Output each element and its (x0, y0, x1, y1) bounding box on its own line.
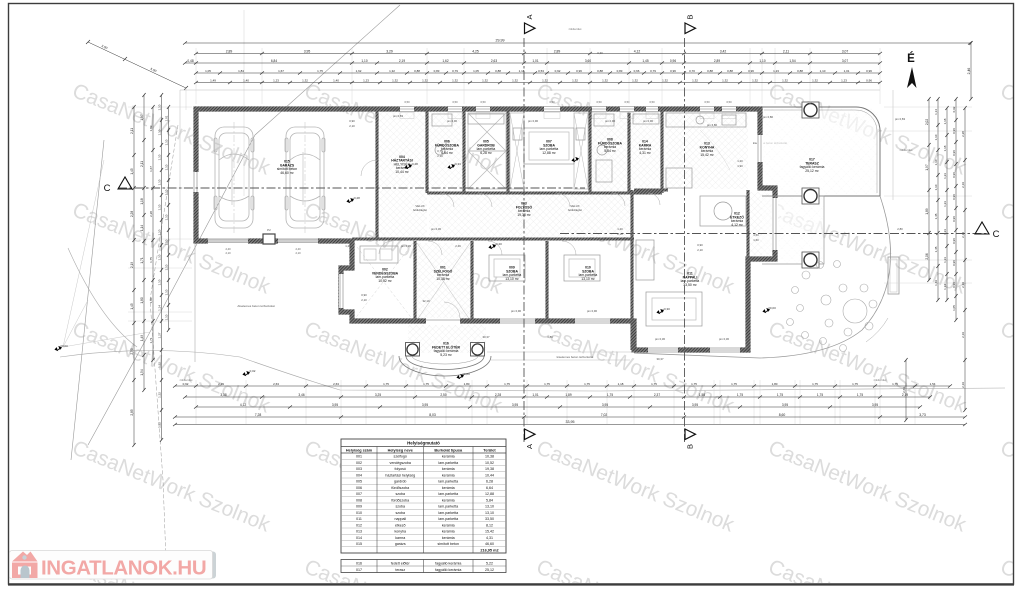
svg-text:25,12 m²: 25,12 m² (805, 169, 819, 173)
svg-text:007: 007 (356, 492, 362, 496)
svg-text:pm 0,30: pm 0,30 (401, 244, 412, 248)
svg-text:1,18: 1,18 (618, 382, 624, 386)
svg-text:1,54: 1,54 (789, 59, 795, 63)
svg-text:kerámia: kerámia (442, 536, 455, 540)
svg-text:0,30: 0,30 (597, 51, 603, 55)
svg-text:pm 0,90: pm 0,90 (528, 119, 539, 123)
svg-text:Helyiség neve: Helyiség neve (388, 448, 413, 452)
svg-text:1,45: 1,45 (130, 168, 134, 174)
svg-text:004: 004 (356, 473, 362, 477)
svg-text:1,05: 1,05 (952, 305, 956, 311)
svg-text:1,23: 1,23 (943, 201, 947, 207)
svg-text:1,10: 1,10 (165, 189, 169, 195)
svg-text:gardrób: gardrób (394, 480, 406, 484)
porch columns (406, 343, 420, 357)
marker B bottom (685, 429, 696, 440)
svg-text:1,67: 1,67 (278, 69, 284, 73)
svg-text:1,75: 1,75 (607, 393, 613, 397)
svg-text:1,23: 1,23 (943, 173, 947, 179)
svg-text:1,01: 1,01 (165, 115, 169, 121)
svg-text:1,10: 1,10 (820, 69, 826, 73)
svg-text:6,28: 6,28 (486, 480, 493, 484)
svg-text:2,10: 2,10 (361, 298, 367, 302)
svg-text:2,19: 2,19 (130, 262, 134, 268)
car 2 in garage (285, 127, 325, 228)
svg-text:felülvilágító: felülvilágító (568, 208, 582, 212)
svg-text:1,10: 1,10 (158, 254, 162, 260)
svg-text:0,50: 0,50 (649, 100, 655, 104)
svg-text:1,32: 1,32 (572, 78, 578, 82)
svg-text:010: 010 (356, 511, 362, 515)
svg-text:1,75: 1,75 (691, 382, 697, 386)
svg-text:1,45: 1,45 (934, 246, 938, 252)
svg-text:1,89: 1,89 (149, 125, 153, 131)
svg-text:fagyálló kerámia: fagyálló kerámia (435, 561, 461, 565)
svg-text:vendégszoba: vendégszoba (390, 461, 411, 465)
svg-text:szélfogó: szélfogó (394, 455, 407, 459)
svg-text:0,92: 0,92 (555, 69, 561, 73)
svg-text:0,96: 0,96 (670, 69, 676, 73)
svg-text:3,95: 3,95 (872, 403, 878, 407)
svg-text:014: 014 (356, 536, 362, 540)
svg-text:3,95: 3,95 (782, 403, 788, 407)
gardrob wardrobe crosses (468, 113, 588, 189)
svg-text:4,31 m²: 4,31 m² (639, 151, 651, 155)
svg-text:0,50: 0,50 (726, 100, 732, 104)
Helyisegmutato table (341, 439, 506, 553)
svg-text:30,37: 30,37 (657, 357, 664, 361)
svg-text:háztartási helyiség: háztartási helyiség (385, 473, 415, 477)
right dim chain 2 (937, 99, 939, 300)
svg-text:1,75: 1,75 (777, 393, 783, 397)
svg-text:1,10: 1,10 (361, 59, 367, 63)
svg-text:kiselemes beton térburkolat: kiselemes beton térburkolat (557, 355, 594, 359)
svg-text:1,32: 1,32 (542, 78, 548, 82)
svg-text:kerámia: kerámia (442, 467, 455, 471)
svg-text:1,32: 1,32 (602, 78, 608, 82)
svg-text:2,28: 2,28 (130, 211, 134, 217)
svg-text:kerámia: kerámia (442, 498, 455, 502)
svg-text:0,53: 0,53 (538, 69, 544, 73)
marker C left (118, 177, 132, 189)
svg-text:1,10: 1,10 (165, 164, 169, 170)
svg-text:1,45: 1,45 (642, 59, 648, 63)
svg-text:0,50: 0,50 (549, 100, 555, 104)
ingatlanok.hu logo (10, 551, 217, 580)
svg-text:1,32: 1,32 (782, 78, 788, 82)
svg-text:P2: P2 (267, 228, 271, 232)
svg-text:fürdőszoba: fürdőszoba (391, 498, 409, 502)
svg-text:INGATLANOK.HU: INGATLANOK.HU (41, 557, 206, 580)
svg-text:3,95: 3,95 (512, 403, 518, 407)
svg-text:0,88: 0,88 (797, 69, 803, 73)
svg-text:1,23: 1,23 (943, 257, 947, 263)
left dim chain 3 (152, 107, 154, 360)
svg-text:1,05: 1,05 (473, 69, 479, 73)
svg-text:30,37: 30,37 (483, 335, 490, 339)
svg-text:Alselemes beton térburkolat: Alselemes beton térburkolat (237, 304, 274, 308)
terrain contour (60, 351, 1005, 392)
interior walls (352, 109, 748, 350)
svg-text:1,32: 1,32 (512, 78, 518, 82)
svg-text:pm 0,90: pm 0,90 (447, 119, 458, 123)
svg-text:0,50: 0,50 (624, 100, 630, 104)
section line C left (118, 187, 585, 189)
svg-text:1,97: 1,97 (925, 164, 929, 170)
svg-text:3,25: 3,25 (375, 393, 381, 397)
svg-text:1,01: 1,01 (844, 69, 850, 73)
svg-text:1,75: 1,75 (817, 393, 823, 397)
svg-text:1,75: 1,75 (584, 382, 590, 386)
svg-text:1,75: 1,75 (383, 382, 389, 386)
svg-text:10,52 m²: 10,52 m² (378, 279, 392, 283)
svg-text:0,96: 0,96 (952, 216, 956, 222)
svg-text:017: 017 (356, 568, 362, 572)
svg-text:0,83: 0,83 (617, 69, 623, 73)
svg-text:1,10: 1,10 (158, 129, 162, 135)
svg-text:19,38: 19,38 (485, 467, 494, 471)
top dim chain row 5 (196, 82, 880, 84)
svg-text:pm 0,80: pm 0,80 (763, 115, 774, 119)
svg-text:1,14: 1,14 (934, 109, 938, 115)
svg-text:2,19: 2,19 (961, 382, 965, 388)
planter (888, 257, 899, 294)
svg-text:szoba: szoba (395, 511, 405, 515)
svg-text:garázs: garázs (395, 542, 406, 546)
svg-text:012: 012 (356, 523, 362, 527)
svg-text:1,10: 1,10 (934, 184, 938, 190)
svg-text:1,32: 1,32 (632, 78, 638, 82)
right dim chain 3 (946, 108, 948, 300)
dimension chains top (185, 42, 970, 44)
svg-text:33,50 m²: 33,50 m² (683, 283, 697, 287)
svg-text:1,27: 1,27 (158, 332, 162, 338)
svg-text:pm 0,90: pm 0,90 (511, 309, 522, 313)
svg-text:1,54: 1,54 (140, 369, 144, 375)
svg-text:É: É (907, 52, 915, 65)
svg-text:C: C (104, 183, 111, 194)
svg-text:4,12 m²: 4,12 m² (731, 223, 743, 227)
svg-text:1,10: 1,10 (158, 279, 162, 285)
svg-text:1,01: 1,01 (532, 393, 538, 397)
svg-text:Helyiségmutató: Helyiségmutató (407, 440, 440, 445)
svg-text:1,80: 1,80 (464, 382, 470, 386)
svg-text:2,80: 2,80 (897, 227, 903, 231)
top dim chain row 2 (196, 53, 880, 55)
szelfogo X glazing (417, 243, 470, 320)
svg-text:016: 016 (356, 561, 362, 565)
marker A bottom (525, 429, 536, 440)
svg-text:3,95: 3,95 (422, 403, 428, 407)
svg-text:2,63: 2,63 (333, 382, 339, 386)
svg-text:1,32: 1,32 (722, 78, 728, 82)
svg-text:2,28: 2,28 (149, 211, 153, 217)
svg-text:1,80: 1,80 (772, 382, 778, 386)
svg-text:0,96: 0,96 (866, 78, 872, 82)
witness extension lines top (196, 48, 880, 104)
svg-text:4,31: 4,31 (486, 536, 493, 540)
svg-text:013: 013 (356, 530, 362, 534)
svg-text:0,92: 0,92 (183, 382, 189, 386)
svg-text:fürdőszoba: fürdőszoba (391, 486, 409, 490)
svg-text:2,37: 2,37 (654, 393, 660, 397)
svg-text:-0,02: -0,02 (249, 369, 256, 373)
svg-text:1,20: 1,20 (617, 227, 623, 231)
svg-text:13,10: 13,10 (485, 505, 494, 509)
svg-text:1,23: 1,23 (363, 78, 369, 82)
svg-text:2,11: 2,11 (783, 49, 789, 53)
svg-text:kerámia: kerámia (442, 486, 455, 490)
roof overhang (180, 90, 893, 252)
terrace lower slab (762, 196, 824, 264)
svg-text:2,10: 2,10 (697, 248, 703, 252)
svg-text:1,75: 1,75 (731, 382, 737, 386)
svg-text:0,79: 0,79 (452, 69, 458, 73)
svg-text:4,12: 4,12 (634, 49, 641, 53)
svg-text:0,48: 0,48 (187, 59, 193, 63)
svg-text:Helyiség szám: Helyiség szám (346, 448, 373, 452)
svg-text:1,10: 1,10 (158, 154, 162, 160)
svg-text:3,07: 3,07 (842, 49, 849, 53)
svg-text:pm 0,30: pm 0,30 (719, 337, 730, 341)
svg-text:46,60: 46,60 (485, 542, 494, 546)
svg-text:2,63: 2,63 (491, 59, 497, 63)
svg-text:±0,00: ±0,00 (60, 344, 68, 348)
svg-text:1,32: 1,32 (482, 78, 488, 82)
svg-text:2,40: 2,40 (225, 247, 231, 251)
svg-text:0,96: 0,96 (952, 238, 956, 244)
svg-text:15,42: 15,42 (485, 530, 494, 534)
svg-text:lam.parketta: lam.parketta (438, 505, 458, 509)
svg-text:1,10: 1,10 (158, 204, 162, 210)
svg-text:0,50: 0,50 (596, 100, 602, 104)
svg-text:1,75: 1,75 (892, 382, 898, 386)
svg-text:2,19: 2,19 (961, 282, 965, 288)
right overall dim (970, 43, 972, 99)
terrace 017 outline (762, 107, 880, 196)
svg-text:1,75: 1,75 (423, 382, 429, 386)
svg-text:7,02: 7,02 (601, 413, 608, 417)
svg-text:0,50: 0,50 (452, 100, 458, 104)
svg-text:fagyálló kerámia: fagyálló kerámia (435, 568, 461, 572)
svg-text:B: B (686, 14, 695, 19)
bottom dim chain row 2 (185, 396, 930, 398)
parcel boundary W (71, 140, 104, 460)
svg-text:pm 0,83: pm 0,83 (895, 117, 906, 121)
marker C right (975, 222, 989, 234)
svg-text:3,42: 3,42 (720, 49, 727, 53)
svg-text:1,75: 1,75 (852, 382, 858, 386)
svg-text:pm 0,90: pm 0,90 (605, 119, 616, 123)
svg-text:13,10 m²: 13,10 m² (505, 277, 519, 281)
svg-text:2,63: 2,63 (273, 382, 279, 386)
svg-text:1,75: 1,75 (737, 393, 743, 397)
svg-text:6,84 m²: 6,84 m² (441, 151, 453, 155)
svg-text:1,75: 1,75 (317, 69, 323, 73)
svg-text:3,07: 3,07 (842, 59, 848, 63)
svg-text:1,97: 1,97 (140, 114, 144, 120)
svg-text:2,19: 2,19 (961, 332, 965, 338)
witness extension lines right (884, 107, 972, 283)
svg-text:2,89: 2,89 (226, 49, 233, 53)
svg-text:1,18: 1,18 (943, 118, 947, 124)
svg-text:2,11: 2,11 (130, 128, 134, 134)
bottom dim chain row 4 (175, 416, 965, 418)
house icon (12, 552, 38, 579)
svg-text:0,96: 0,96 (952, 194, 956, 200)
svg-text:pm 6,80: pm 6,80 (707, 123, 718, 127)
svg-text:1,10: 1,10 (165, 314, 169, 320)
top dim chain row 3 (185, 62, 880, 64)
left dim chain 2 (143, 95, 145, 390)
porch arc steps (399, 356, 491, 376)
svg-text:1,40: 1,40 (333, 78, 339, 82)
svg-text:konyha: konyha (394, 530, 406, 534)
svg-text:1,49: 1,49 (934, 280, 938, 286)
car axis lines (234, 122, 305, 233)
svg-text:1,05: 1,05 (205, 69, 211, 73)
svg-text:1,14: 1,14 (158, 305, 162, 311)
svg-text:0,88: 0,88 (707, 69, 713, 73)
svg-text:0,96: 0,96 (952, 128, 956, 134)
svg-text:1,58: 1,58 (699, 393, 705, 397)
svg-text:simított beton: simított beton (437, 542, 459, 546)
svg-text:zöldterület: zöldterület (569, 27, 582, 31)
svg-text:13,10 m²: 13,10 m² (581, 277, 595, 281)
svg-text:kamra: kamra (395, 536, 405, 540)
svg-text:±0,00: ±0,00 (462, 372, 470, 376)
svg-text:1,89: 1,89 (565, 393, 571, 397)
marker B top (685, 23, 696, 34)
svg-text:+0,30: +0,30 (662, 307, 670, 311)
svg-text:6,84: 6,84 (271, 59, 277, 63)
svg-text:nappali: nappali (394, 517, 406, 521)
svg-text:fedett előtér: fedett előtér (391, 561, 411, 565)
svg-text:1,32: 1,32 (389, 69, 395, 73)
svg-text:2,19: 2,19 (961, 182, 965, 188)
svg-text:2,19: 2,19 (218, 382, 224, 386)
svg-text:2,10: 2,10 (225, 251, 231, 255)
svg-text:0,96: 0,96 (952, 150, 956, 156)
svg-text:kerámia: kerámia (442, 530, 455, 534)
svg-text:0,88: 0,88 (727, 69, 733, 73)
svg-text:1,23: 1,23 (841, 78, 847, 82)
svg-text:3,29: 3,29 (386, 49, 393, 53)
svg-text:8,12: 8,12 (486, 523, 493, 527)
svg-text:szoba: szoba (395, 505, 405, 509)
svg-text:+0,20: +0,20 (494, 242, 502, 246)
svg-text:Terület: Terület (483, 448, 496, 452)
svg-text:1,62: 1,62 (356, 69, 362, 73)
svg-text:2,49: 2,49 (455, 244, 461, 248)
svg-text:3,73: 3,73 (919, 413, 926, 417)
svg-text:10,44: 10,44 (485, 473, 494, 477)
section line C right (560, 233, 988, 235)
svg-text:1,10: 1,10 (165, 289, 169, 295)
svg-text:216,95 m2: 216,95 m2 (480, 549, 498, 553)
left dim chain 4 (161, 95, 163, 440)
svg-text:pm 0,90: pm 0,90 (587, 309, 598, 313)
svg-text:1,45: 1,45 (130, 303, 134, 309)
svg-text:1,54: 1,54 (930, 382, 936, 386)
svg-text:0,90: 0,90 (697, 243, 703, 247)
svg-text:6,28 m²: 6,28 m² (480, 151, 492, 155)
svg-text:19,38 m²: 19,38 m² (517, 213, 531, 217)
svg-text:1,49: 1,49 (140, 335, 144, 341)
svg-text:1,45: 1,45 (934, 213, 938, 219)
svg-text:0,50: 0,50 (480, 100, 486, 104)
svg-text:5,84: 5,84 (486, 498, 493, 502)
witness extension lines bottom (196, 380, 915, 424)
vendegszoba roof dashes (354, 243, 413, 320)
bottom dim chain row 1 (175, 385, 950, 387)
patio stones (843, 299, 867, 323)
svg-text:1,32: 1,32 (158, 362, 162, 368)
svg-text:011: 011 (356, 517, 362, 521)
svg-text:1,10: 1,10 (158, 179, 162, 185)
svg-text:0,88: 0,88 (495, 69, 501, 73)
column (802, 102, 819, 118)
svg-text:1,20: 1,20 (737, 159, 743, 163)
svg-text:2,02: 2,02 (925, 119, 929, 125)
svg-text:1,20: 1,20 (345, 244, 351, 248)
svg-text:4,25: 4,25 (472, 49, 479, 53)
svg-text:008: 008 (356, 498, 362, 502)
svg-text:1,18: 1,18 (140, 198, 144, 204)
svg-text:pm 0,30: pm 0,30 (655, 337, 666, 341)
svg-text:006: 006 (356, 486, 362, 490)
paving edge below garage (194, 241, 196, 362)
svg-text:C: C (993, 229, 1000, 240)
svg-text:2,89: 2,89 (554, 49, 561, 53)
column (802, 188, 819, 204)
svg-text:3,95: 3,95 (332, 403, 338, 407)
svg-text:1,10: 1,10 (165, 214, 169, 220)
right dim chain 4 (955, 99, 957, 320)
svg-text:2,10: 2,10 (349, 124, 355, 128)
svg-text:pm 0,90: pm 0,90 (643, 119, 654, 123)
svg-text:10,38: 10,38 (485, 455, 494, 459)
svg-text:1,32: 1,32 (692, 78, 698, 82)
svg-text:005: 005 (356, 480, 362, 484)
svg-text:étkező: étkező (395, 523, 406, 527)
svg-text:+0,28: +0,28 (352, 196, 360, 200)
svg-text:12,88 m²: 12,88 m² (542, 151, 556, 155)
svg-text:6,64: 6,64 (486, 486, 493, 490)
svg-text:1,89: 1,89 (925, 208, 929, 214)
marker A top (525, 23, 536, 34)
svg-text:1,10: 1,10 (934, 134, 938, 140)
paving strip below rooms (487, 352, 634, 360)
svg-text:5,84 m²: 5,84 m² (604, 149, 616, 153)
svg-text:1,80: 1,80 (149, 297, 153, 303)
svg-text:1,23: 1,23 (943, 229, 947, 235)
svg-text:1,32: 1,32 (752, 78, 758, 82)
parcel boundary NE (88, 5, 400, 445)
svg-text:0,96: 0,96 (952, 260, 956, 266)
svg-text:kerámia: kerámia (442, 455, 455, 459)
column (802, 252, 819, 268)
svg-text:29,99: 29,99 (496, 39, 505, 43)
svg-text:1,32: 1,32 (158, 422, 162, 428)
svg-text:2,50: 2,50 (440, 393, 446, 397)
svg-text:3,95: 3,95 (602, 403, 608, 407)
svg-text:0,96: 0,96 (866, 69, 872, 73)
svg-text:1,10: 1,10 (165, 139, 169, 145)
svg-text:13,10: 13,10 (485, 511, 494, 515)
svg-text:003: 003 (356, 467, 362, 471)
svg-text:10,52: 10,52 (485, 461, 494, 465)
